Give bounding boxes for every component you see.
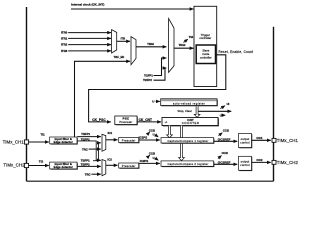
svg-text:IC1PS: IC1PS bbox=[139, 136, 147, 140]
wire ITR0 bbox=[68, 32, 111, 34]
event UI bbox=[220, 106, 225, 109]
svg-text:CC1I: CC1I bbox=[223, 129, 229, 133]
pin TIMx_CH1 output bbox=[272, 138, 276, 142]
mux IC2 bbox=[102, 160, 106, 176]
border bottom bbox=[27, 180, 274, 182]
wire TI1FP2 down to IC2 mux bbox=[77, 141, 101, 160]
output control 1 box bbox=[239, 134, 252, 148]
prescaler PSC shadow bbox=[116, 117, 138, 126]
wire OC2REF to output control bbox=[214, 163, 238, 165]
svg-text:ITR: ITR bbox=[121, 37, 126, 41]
svg-text:Internal clock (CK_INT): Internal clock (CK_INT) bbox=[71, 3, 104, 7]
svg-text:CK_CNT: CK_CNT bbox=[139, 118, 152, 122]
svg-text:U: U bbox=[220, 114, 222, 118]
svg-text:Edge detector: Edge detector bbox=[54, 165, 73, 169]
counter CNT shadow bbox=[163, 118, 219, 126]
svg-text:U: U bbox=[153, 133, 155, 137]
svg-text:+/-: +/- bbox=[165, 121, 168, 124]
wire CH1 pin to input filter bbox=[29, 141, 49, 143]
output control 2 box bbox=[239, 156, 252, 170]
output control 2 shadow bbox=[239, 157, 252, 171]
svg-text:TGI: TGI bbox=[189, 35, 194, 39]
svg-text:TI1FP1: TI1FP1 bbox=[144, 74, 153, 78]
svg-text:TIMx_CH1: TIMx_CH1 bbox=[3, 139, 25, 144]
wire OC1REF to output control bbox=[214, 140, 238, 142]
wire ITR3 bbox=[68, 50, 111, 52]
slave mode controller box U5 bbox=[196, 45, 215, 64]
svg-text:control: control bbox=[240, 140, 250, 144]
svg-text:TIMx_CH2: TIMx_CH2 bbox=[3, 163, 25, 168]
svg-text:auto-reload register: auto-reload register bbox=[173, 101, 205, 105]
prescaler IC1 box bbox=[119, 138, 139, 143]
svg-text:COUNTER: COUNTER bbox=[182, 121, 200, 125]
svg-text:Prescaler: Prescaler bbox=[122, 164, 136, 168]
output control 1 shadow bbox=[239, 134, 252, 148]
input filter edge detector 2 shadow bbox=[51, 163, 78, 170]
prescaler IC1 shadow bbox=[120, 138, 140, 143]
wire IC2PS to CCR2 bbox=[139, 162, 160, 164]
svg-text:control: control bbox=[240, 163, 250, 167]
pin TIMx_CH2 output bbox=[272, 160, 276, 164]
wire TRGI to trigger controller bbox=[174, 47, 193, 49]
svg-text:TIMx_CH1: TIMx_CH1 bbox=[277, 138, 299, 143]
wire mux1 to mux2 bbox=[117, 40, 130, 42]
svg-text:U: U bbox=[152, 99, 154, 103]
mux U3 TRGI selector bbox=[169, 19, 174, 73]
svg-text:IC2: IC2 bbox=[107, 158, 112, 162]
wire IC1 to prescaler bbox=[106, 139, 118, 141]
capture compare 1 register shadow bbox=[162, 138, 215, 143]
capture compare 1 register box bbox=[161, 138, 214, 143]
svg-text:Capture/Compare 1 register: Capture/Compare 1 register bbox=[167, 139, 208, 143]
svg-text:CC2I: CC2I bbox=[222, 151, 228, 155]
wire TI2FP2 to IC2 mux bbox=[77, 165, 101, 167]
wire TI1F_ED from edge detector to mux2 bbox=[75, 61, 131, 137]
svg-text:ITR2: ITR2 bbox=[61, 43, 68, 47]
svg-text:controller: controller bbox=[200, 55, 212, 59]
wire CK_INT to trigger controller bbox=[71, 8, 193, 10]
wire TI2FP1 up to IC1 mux bbox=[93, 143, 101, 161]
prescaler IC2 shadow bbox=[120, 164, 140, 169]
wire TRC to IC1 mux bbox=[89, 148, 101, 150]
wire CH2 pin to input filter bbox=[29, 165, 49, 167]
svg-text:TRGI: TRGI bbox=[147, 42, 154, 46]
svg-text:TRGI: TRGI bbox=[179, 43, 186, 47]
svg-text:ITR3: ITR3 bbox=[61, 49, 68, 53]
event U right bbox=[198, 110, 231, 112]
svg-text:Prescaler: Prescaler bbox=[122, 138, 136, 142]
svg-text:TI1FP1: TI1FP1 bbox=[81, 132, 90, 136]
input filter edge detector 2 box bbox=[50, 162, 77, 169]
svg-text:Reset, Enable, Count: Reset, Enable, Count bbox=[219, 50, 254, 54]
svg-text:Edge detector: Edge detector bbox=[54, 140, 73, 144]
trigger controller box U4 bbox=[194, 6, 217, 86]
svg-text:PSC: PSC bbox=[123, 117, 130, 121]
wire TRC to IC2 mux bbox=[91, 173, 100, 175]
svg-text:TI2FP1: TI2FP1 bbox=[81, 159, 90, 163]
auto-reload register box bbox=[161, 99, 217, 106]
counter CNT box bbox=[162, 118, 218, 126]
wire IC1PS to CCR1 bbox=[139, 139, 160, 141]
wire TGI arrow bbox=[184, 39, 188, 42]
wire TI1FP1 to IC1 mux bbox=[77, 136, 101, 138]
wire TI2FP2 to mux3 bbox=[154, 68, 167, 80]
svg-text:TI2: TI2 bbox=[39, 159, 44, 163]
input filter edge detector 1 box bbox=[50, 137, 77, 144]
wire TI1FP1 to mux3 bbox=[154, 58, 167, 76]
svg-text:TIMx_CH2: TIMx_CH2 bbox=[277, 160, 299, 165]
mux U1 ITR selector bbox=[112, 30, 117, 53]
wire slave controller to prescaler clock bbox=[89, 55, 226, 122]
capture compare 2 register box bbox=[161, 161, 214, 166]
svg-text:ITR1: ITR1 bbox=[61, 36, 68, 40]
wire ITR1 bbox=[68, 37, 111, 39]
svg-text:IC2PS: IC2PS bbox=[140, 159, 148, 163]
svg-text:TI1: TI1 bbox=[40, 133, 45, 137]
input filter edge detector 1 shadow bbox=[51, 138, 78, 145]
auto-reload register shadow bbox=[162, 100, 218, 107]
capture compare 2 register shadow bbox=[162, 162, 215, 167]
auto-reload register preload hatch bbox=[161, 99, 217, 101]
svg-text:TI1F_ED: TI1F_ED bbox=[114, 55, 125, 59]
wire CK_CNT bbox=[137, 121, 161, 123]
svg-text:OC2: OC2 bbox=[256, 158, 263, 162]
svg-text:TI2FP2: TI2FP2 bbox=[143, 78, 152, 82]
wire mux2 to mux3 bbox=[136, 46, 166, 48]
prescaler PSC box bbox=[115, 116, 137, 125]
svg-text:CC1I: CC1I bbox=[149, 129, 155, 133]
border left bbox=[26, 7, 28, 181]
svg-text:OC1: OC1 bbox=[256, 136, 263, 140]
prescaler IC2 box bbox=[119, 163, 139, 168]
svg-text:Capture/Compare 2 register: Capture/Compare 2 register bbox=[167, 162, 208, 166]
wire IC2 to prescaler bbox=[106, 164, 118, 166]
svg-text:Prescaler: Prescaler bbox=[119, 120, 132, 124]
svg-text:TRC: TRC bbox=[82, 147, 88, 151]
hollow arrow CNT to CCR1 bbox=[167, 126, 173, 138]
wire OC2 to pin bbox=[252, 161, 271, 163]
hollow arrow CNT to CCR2 bbox=[179, 126, 185, 161]
svg-text:CC2I: CC2I bbox=[149, 152, 155, 156]
border right bbox=[273, 27, 275, 181]
svg-text:TRC: TRC bbox=[85, 172, 91, 176]
svg-text:IC1: IC1 bbox=[108, 131, 113, 135]
svg-text:Stop, Clear: Stop, Clear bbox=[177, 109, 191, 113]
svg-text:U: U bbox=[153, 156, 155, 160]
wire OC1 to pin bbox=[252, 139, 271, 141]
wire ITR2 bbox=[68, 44, 111, 46]
svg-text:CK_PSC: CK_PSC bbox=[92, 118, 106, 122]
hollow arrow ARR to CNT bbox=[194, 106, 200, 117]
mux IC1 bbox=[102, 134, 106, 151]
svg-text:ITR0: ITR0 bbox=[61, 31, 68, 35]
mux U2 bbox=[131, 37, 136, 65]
svg-text:UI: UI bbox=[227, 102, 230, 106]
svg-text:controller: controller bbox=[199, 36, 211, 40]
